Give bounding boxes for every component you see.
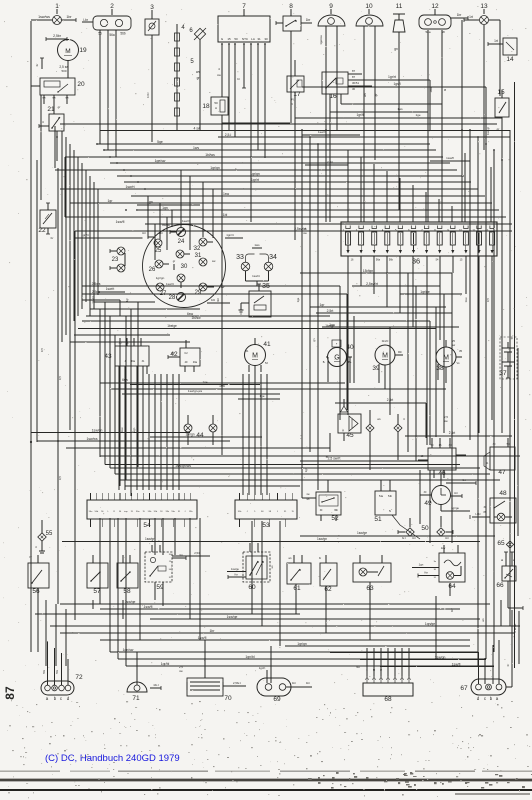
clock 49 xyxy=(420,472,476,511)
svg-text:500: 500 xyxy=(61,69,66,73)
svg-text:1sw/fl: 1sw/fl xyxy=(452,662,461,666)
svg-text:53: 53 xyxy=(262,522,270,529)
svg-text:1gr/rt: 1gr/rt xyxy=(251,178,259,182)
svg-text:13: 13 xyxy=(480,3,488,10)
svg-text:23: 23 xyxy=(112,257,119,263)
wire run band-A 11 1sw/rt xyxy=(60,185,478,189)
svg-text:15: 15 xyxy=(227,37,231,41)
svg-text:1sw/fl: 1sw/fl xyxy=(144,605,153,609)
svg-text:1ws: 1ws xyxy=(254,243,260,247)
svg-text:1gn: 1gn xyxy=(419,563,424,567)
switch 61 xyxy=(287,555,311,596)
svg-text:25: 25 xyxy=(155,248,162,254)
wire run band-D 13 xyxy=(126,662,494,666)
svg-text:52: 52 xyxy=(331,515,339,522)
svg-text:1rt: 1rt xyxy=(469,15,473,19)
svg-text:rt: rt xyxy=(403,417,405,421)
wire run band-A 17 2,5sw/rt xyxy=(75,227,512,231)
wire run band-A 16 1sw/fl xyxy=(116,220,512,224)
unit 51 xyxy=(374,480,420,539)
svg-text:56b: 56b xyxy=(389,259,394,262)
unit 48 xyxy=(470,490,516,523)
switch 66 xyxy=(496,566,523,610)
wire 1sw/rt cluster left xyxy=(98,287,125,292)
switch 21 xyxy=(39,106,64,161)
svg-text:50: 50 xyxy=(234,37,238,41)
svg-text:2,5 sw/rt: 2,5 sw/rt xyxy=(328,457,341,461)
svg-text:69: 69 xyxy=(273,696,281,703)
switch 58 xyxy=(117,555,138,595)
wire junction dots band A xyxy=(96,123,503,190)
main earth bus left xyxy=(30,21,62,640)
svg-text:11: 11 xyxy=(396,3,403,10)
wire run band-C 2 xyxy=(37,437,230,441)
svg-text:56a: 56a xyxy=(376,259,381,262)
wire verticals 41-53 xyxy=(243,374,267,495)
svg-text:1bl: 1bl xyxy=(211,298,215,302)
svg-text:br: br xyxy=(506,664,510,667)
svg-text:gn: gn xyxy=(394,47,398,51)
svg-text:1gr/rt: 1gr/rt xyxy=(388,75,396,79)
svg-text:l-br: l-br xyxy=(142,231,146,235)
wire run band-B 1gn xyxy=(322,323,459,327)
svg-text:1gr/rt: 1gr/rt xyxy=(259,666,266,670)
wire run band-B 1gr xyxy=(310,303,446,307)
wire run band-D 5 xyxy=(50,622,520,626)
svg-text:1gn/ge: 1gn/ge xyxy=(425,622,435,626)
svg-text:1sw/ge: 1sw/ge xyxy=(227,615,238,619)
svg-text:15r/lgn: 15r/lgn xyxy=(363,269,373,273)
wire run band-B 6sw xyxy=(120,312,330,316)
svg-text:sw: sw xyxy=(452,344,455,347)
svg-text:sw/ge: sw/ge xyxy=(162,223,170,227)
svg-text:1bl: 1bl xyxy=(216,298,220,302)
switch 60 xyxy=(227,543,274,600)
svg-text:1br: 1br xyxy=(210,629,216,633)
wire 1sw/gn mid-low xyxy=(62,537,480,542)
svg-text:1sw/ws: 1sw/ws xyxy=(38,15,50,19)
svg-text:35: 35 xyxy=(459,349,463,353)
motor 19 wiper xyxy=(35,34,87,78)
wire run band-A 8 1gr/gn xyxy=(55,166,457,170)
svg-text:37: 37 xyxy=(499,370,507,377)
svg-text:2,5ge: 2,5ge xyxy=(92,290,101,294)
svg-text:1bl/ws: 1bl/ws xyxy=(205,153,215,157)
unit 46 xyxy=(418,438,466,478)
lamp 31 xyxy=(195,253,217,266)
svg-text:l-br: l-br xyxy=(454,491,458,495)
svg-text:56: 56 xyxy=(32,588,40,595)
svg-text:NA: NA xyxy=(356,665,360,669)
svg-text:4 sw: 4 sw xyxy=(194,126,202,130)
svg-text:2: 2 xyxy=(110,3,114,10)
svg-text:1gr/fl: 1gr/fl xyxy=(356,113,363,117)
lamp 32 xyxy=(194,238,213,252)
svg-text:J: J xyxy=(184,511,185,513)
unit 59 xyxy=(145,545,210,606)
svg-text:ws: ws xyxy=(196,70,200,74)
label 15sw right of cluster xyxy=(303,227,307,235)
svg-text:1br: 1br xyxy=(179,554,183,557)
svg-text:54a: 54a xyxy=(379,495,384,498)
unit 42 xyxy=(168,340,200,372)
svg-text:1sw/gn: 1sw/gn xyxy=(92,428,103,432)
svg-text:71: 71 xyxy=(132,695,140,702)
fuse 18 xyxy=(202,44,228,124)
svg-text:50: 50 xyxy=(421,525,429,532)
wire band-B left links xyxy=(82,286,347,420)
lamp 29 xyxy=(195,283,226,296)
svg-text:J: J xyxy=(247,511,248,513)
wire 1bl cluster right xyxy=(207,298,230,303)
connector strip 53 xyxy=(235,493,297,529)
svg-text:1sw/rt: 1sw/rt xyxy=(252,274,260,278)
svg-text:87: 87 xyxy=(352,75,356,79)
svg-text:70: 70 xyxy=(224,695,232,702)
svg-text:br: br xyxy=(501,559,504,561)
wire run band-A 14 1gn xyxy=(138,206,499,210)
svg-text:61: 61 xyxy=(293,585,301,592)
svg-text:6 MSW: 6 MSW xyxy=(513,623,517,633)
svg-text:1br-l: 1br-l xyxy=(153,683,159,687)
motor 38 xyxy=(436,339,463,383)
switch 3 xyxy=(145,4,159,44)
wire cluster feed stubs xyxy=(148,170,213,260)
svg-text:1sw/gn: 1sw/gn xyxy=(317,537,327,541)
wire run band-C 6 xyxy=(110,464,480,468)
svg-text:ws: ws xyxy=(363,93,367,97)
svg-text:ws: ws xyxy=(377,417,381,421)
svg-text:1ge: 1ge xyxy=(296,297,300,302)
wire run band-A 3 2,5-l xyxy=(218,133,510,137)
svg-text:9,5: 9,5 xyxy=(58,376,62,380)
motor 41 xyxy=(245,338,271,374)
wire horn leads down xyxy=(326,33,378,150)
svg-text:1sw/rt: 1sw/rt xyxy=(318,130,326,134)
svg-text:28: 28 xyxy=(169,295,176,301)
gauge 30 xyxy=(173,259,188,270)
lamp unit 63 xyxy=(353,555,391,596)
wire 1bl/sw extension xyxy=(245,321,430,445)
svg-text:br: br xyxy=(35,64,39,67)
svg-text:1sw/ge: 1sw/ge xyxy=(357,531,367,535)
svg-text:1beige: 1beige xyxy=(167,324,177,328)
svg-text:5W: 5W xyxy=(43,669,46,673)
svg-text:LA: LA xyxy=(251,37,255,41)
wire run band-D 6 xyxy=(60,629,515,633)
svg-text:M: M xyxy=(382,352,388,359)
wire run band-B 15r/lgn xyxy=(300,269,452,273)
connector 71 xyxy=(127,666,161,702)
wire run band-D 14 xyxy=(380,662,494,666)
svg-text:br: br xyxy=(51,236,54,240)
page right margin line xyxy=(514,82,516,668)
wire verticals 43-54 xyxy=(119,374,179,490)
svg-text:G: G xyxy=(334,354,339,361)
switch 15 xyxy=(495,89,509,160)
unit 43 xyxy=(104,338,149,374)
svg-text:87: 87 xyxy=(3,686,17,700)
lamp 25 xyxy=(142,231,162,254)
svg-text:33: 33 xyxy=(236,254,244,261)
wire run band-D 8 xyxy=(285,642,470,646)
svg-text:44: 44 xyxy=(196,432,204,439)
svg-text:7: 7 xyxy=(242,3,246,10)
horn 10 xyxy=(356,3,383,33)
svg-text:rt: rt xyxy=(291,102,293,106)
svg-text:58: 58 xyxy=(123,588,131,595)
svg-text:1br: 1br xyxy=(306,681,310,685)
svg-text:1gn/rt: 1gn/rt xyxy=(81,233,89,237)
lamp 13 xyxy=(464,3,500,25)
wire run band-A 15 1bl xyxy=(65,213,506,217)
connector 68 xyxy=(356,648,413,703)
wire run band-A 7 1ge/sw xyxy=(110,159,450,163)
wire run band-B 2,5sw/rt xyxy=(352,282,440,286)
wire 1beige xyxy=(78,324,260,329)
svg-text:bl br: bl br xyxy=(146,92,150,98)
svg-text:1sw/gn/ws: 1sw/gn/ws xyxy=(175,464,191,468)
wire under-cluster links xyxy=(70,302,225,342)
svg-text:M: M xyxy=(252,352,258,359)
indicator 24 xyxy=(159,219,190,245)
svg-text:5W: 5W xyxy=(56,669,59,673)
wire run band-D 4 xyxy=(150,615,480,619)
wire bottom verticals xyxy=(100,470,501,666)
switch 22 xyxy=(38,203,56,240)
svg-text:1sw: 1sw xyxy=(429,87,433,93)
svg-text:5ge: 5ge xyxy=(157,140,163,144)
svg-text:20: 20 xyxy=(77,81,85,88)
wire run band-D 7 xyxy=(100,636,470,640)
svg-text:gr: gr xyxy=(58,105,61,109)
unit 64 xyxy=(412,545,465,596)
svg-text:1gn/bl: 1gn/bl xyxy=(245,655,254,659)
wire run band-C 7 xyxy=(115,473,490,475)
wire run band-B 2,5ge xyxy=(82,290,347,294)
svg-text:1gr/gn: 1gr/gn xyxy=(250,172,260,176)
connector 14 xyxy=(488,38,517,63)
sensor 6 xyxy=(189,28,206,130)
svg-text:31: 31 xyxy=(257,37,261,41)
svg-text:rt: rt xyxy=(35,545,37,549)
speaker 45 xyxy=(326,399,361,459)
wire run band-C 8 xyxy=(120,479,500,481)
svg-text:2,5ws: 2,5ws xyxy=(92,282,101,286)
svg-text:1sw/rt: 1sw/rt xyxy=(125,185,134,189)
svg-text:1sw: 1sw xyxy=(441,546,446,550)
svg-text:1gr/bl: 1gr/bl xyxy=(161,662,170,666)
svg-text:br: br xyxy=(237,77,240,81)
cluster top wires xyxy=(125,200,200,211)
svg-text:Rbr: Rbr xyxy=(398,351,402,354)
svg-text:bl: bl xyxy=(443,89,447,92)
wire 1beige extension xyxy=(260,324,436,437)
wire run band-A 6 1bl/ws xyxy=(65,153,443,157)
svg-text:64: 64 xyxy=(448,583,456,590)
svg-text:24: 24 xyxy=(178,239,185,245)
svg-text:br: br xyxy=(341,429,345,432)
wire run band-A 5 1ws xyxy=(104,146,436,150)
svg-text:l-br: l-br xyxy=(171,351,175,355)
svg-text:gn: gn xyxy=(312,338,316,342)
wire fuse feeds top xyxy=(348,150,491,222)
relay 8 xyxy=(276,3,312,123)
svg-text:1ws: 1ws xyxy=(397,107,403,111)
wire run band-A 9 1gr/gn xyxy=(117,172,464,176)
wire verticals to band C xyxy=(100,302,138,496)
svg-text:1ge/sw: 1ge/sw xyxy=(319,34,323,44)
svg-text:56a: 56a xyxy=(109,33,115,37)
wire right edge 6MSW xyxy=(512,610,519,664)
svg-text:51: 51 xyxy=(374,516,382,523)
switch 35 xyxy=(239,283,272,317)
lamps 23 xyxy=(110,247,125,272)
wire links right mid xyxy=(302,74,518,536)
svg-text:30: 30 xyxy=(181,264,188,270)
wire run band-A 12 1sw xyxy=(131,192,485,196)
lamp 26 xyxy=(149,260,169,273)
svg-text:br-l: br-l xyxy=(402,536,406,540)
svg-text:1gr/gn: 1gr/gn xyxy=(297,642,307,646)
wire lamp13 lead xyxy=(484,20,500,150)
svg-text:1gn: 1gn xyxy=(304,467,308,472)
svg-text:A: A xyxy=(215,106,217,110)
lighter 11 xyxy=(393,3,405,51)
svg-text:32: 32 xyxy=(194,246,201,252)
svg-text:1sw/rt: 1sw/rt xyxy=(106,287,115,291)
svg-text:29: 29 xyxy=(195,290,202,296)
svg-text:5t: 5t xyxy=(389,510,391,513)
svg-text:49a: 49a xyxy=(131,360,136,363)
svg-text:6sw: 6sw xyxy=(122,378,128,382)
svg-text:30: 30 xyxy=(352,87,356,91)
svg-text:9,5: 9,5 xyxy=(58,476,62,480)
svg-text:2,5sw/rt: 2,5sw/rt xyxy=(366,282,378,286)
switch 56 xyxy=(28,555,49,600)
svg-text:l-br: l-br xyxy=(412,536,416,540)
wire 1sw/ge mid-low xyxy=(300,531,495,536)
svg-text:1gr/fl: 1gr/fl xyxy=(393,82,400,86)
svg-text:66: 66 xyxy=(496,582,504,589)
svg-text:gr: gr xyxy=(173,259,176,263)
svg-text:1gr/gn: 1gr/gn xyxy=(210,166,220,170)
lamps 44 xyxy=(184,415,217,445)
svg-text:gr: gr xyxy=(374,94,378,97)
svg-text:1rt: 1rt xyxy=(494,39,498,43)
wire run band-D 2 xyxy=(100,605,460,609)
battery 37 xyxy=(499,336,517,379)
wire 1sw/fl right link xyxy=(430,156,470,161)
wire run band-D 11 xyxy=(118,655,486,659)
svg-text:2,5br-l: 2,5br-l xyxy=(233,681,241,685)
lamp mid upper xyxy=(176,250,190,258)
svg-text:72: 72 xyxy=(75,674,83,681)
relay 17 xyxy=(287,60,304,118)
wire run band-A 4 5ge xyxy=(97,140,430,144)
svg-text:1gr/gn: 1gr/gn xyxy=(156,276,165,280)
relay 16 xyxy=(322,69,359,112)
wire run band-B 2,5ws xyxy=(82,282,340,286)
svg-text:9,5: 9,5 xyxy=(40,348,44,352)
svg-text:55: 55 xyxy=(46,531,53,537)
svg-text:12: 12 xyxy=(431,3,439,10)
wire run band-D 1 xyxy=(60,600,490,604)
svg-text:2,5br: 2,5br xyxy=(53,34,62,38)
svg-text:1gr: 1gr xyxy=(108,199,114,203)
wire connector12 leads xyxy=(428,30,447,112)
wire lighter lead xyxy=(398,44,400,160)
svg-text:1br/gn: 1br/gn xyxy=(185,433,194,437)
wire run band-D 3 xyxy=(35,613,300,615)
svg-text:ws: ws xyxy=(481,618,485,622)
svg-text:41: 41 xyxy=(263,341,271,348)
svg-text:2,5rt: 2,5rt xyxy=(327,160,333,164)
wire 1gr/rt from 16 xyxy=(355,75,430,130)
wire 1sw lower xyxy=(110,384,446,389)
connector 2 xyxy=(82,3,131,37)
svg-text:1gn: 1gn xyxy=(162,206,168,210)
wire 1bl/sw xyxy=(82,316,245,321)
wire run band-D 10 xyxy=(330,652,478,654)
svg-text:1ws: 1ws xyxy=(193,146,199,150)
svg-text:19: 19 xyxy=(79,47,87,54)
svg-text:1: 1 xyxy=(55,3,59,10)
svg-text:2,5-l: 2,5-l xyxy=(225,133,232,137)
svg-text:87: 87 xyxy=(352,69,356,73)
svg-text:1br: 1br xyxy=(292,681,296,685)
connector 12 xyxy=(419,3,468,34)
svg-text:56b: 56b xyxy=(120,32,126,36)
resistor chain 4 / 5 xyxy=(175,24,195,130)
svg-text:1sw/gn-ws: 1sw/gn-ws xyxy=(188,389,203,393)
svg-text:26: 26 xyxy=(149,267,156,273)
svg-text:15: 15 xyxy=(497,89,505,96)
svg-text:M: M xyxy=(65,48,70,55)
svg-text:10: 10 xyxy=(365,3,373,10)
svg-text:1gn/sw: 1gn/sw xyxy=(123,648,134,652)
connector strip 54 xyxy=(87,493,197,529)
svg-text:l-br: l-br xyxy=(445,536,449,540)
svg-text:1rt: 1rt xyxy=(462,478,465,482)
svg-text:1beige: 1beige xyxy=(325,324,335,328)
svg-text:B-: B- xyxy=(323,361,326,364)
control unit 7 xyxy=(218,3,270,45)
svg-text:1sw/gn: 1sw/gn xyxy=(145,537,155,541)
svg-text:34: 34 xyxy=(269,254,277,261)
svg-text:1bl/sw: 1bl/sw xyxy=(191,316,201,320)
wire band mid 1ge xyxy=(130,380,260,385)
lamps 33 and 34 xyxy=(75,233,277,286)
svg-text:1sw/rt: 1sw/rt xyxy=(91,296,95,304)
wire mid verticals to bottom xyxy=(348,256,492,445)
svg-text:rt: rt xyxy=(42,120,44,124)
svg-text:21: 21 xyxy=(47,106,55,113)
svg-text:J: J xyxy=(277,511,278,513)
svg-text:1ge: 1ge xyxy=(415,113,420,117)
svg-text:DmrD: DmrD xyxy=(382,340,389,343)
svg-text:46: 46 xyxy=(438,470,446,477)
svg-text:40: 40 xyxy=(346,344,354,351)
diamond 55 xyxy=(35,520,53,553)
wire leads comp2 comp3 down xyxy=(100,30,152,157)
svg-text:1ge: 1ge xyxy=(259,394,264,398)
connector 69 xyxy=(257,666,312,703)
wire run band-C 5 xyxy=(105,464,460,466)
wire band mid 1sw-gn-ws xyxy=(122,389,280,399)
wire run band-A 10 1gr/rt xyxy=(124,178,471,182)
wire run band-C 4 xyxy=(100,455,520,457)
